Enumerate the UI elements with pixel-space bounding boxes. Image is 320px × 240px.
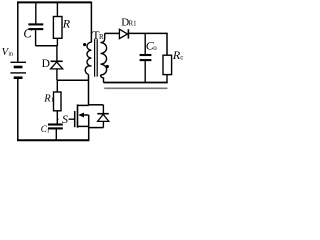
resistor Ro <box>163 55 172 82</box>
label R <box>62 16 71 30</box>
label D <box>42 58 50 70</box>
label R1 <box>43 93 54 104</box>
transformer TR core <box>95 39 98 76</box>
label Vin <box>2 47 13 58</box>
wire output top rail <box>128 32 167 34</box>
diode DR1 <box>119 29 128 38</box>
resistor R1 <box>54 80 62 111</box>
label C1 <box>41 124 50 134</box>
wire source to bottom rail <box>88 126 90 140</box>
wire R1 to C1 <box>56 111 58 124</box>
transformer TR secondary polarity dot <box>106 65 109 68</box>
transformer TR secondary top hook <box>101 33 105 42</box>
wire top rail <box>17 1 91 3</box>
label Ro <box>172 48 184 62</box>
body diode of S <box>89 105 109 128</box>
wire output bottom rail <box>104 82 168 84</box>
svg-text:1: 1 <box>51 98 54 104</box>
wire left rail upper <box>17 2 19 62</box>
svg-text:o: o <box>153 44 157 52</box>
svg-text:D: D <box>42 58 50 70</box>
wire snubber bottom node <box>57 79 89 81</box>
svg-text:C: C <box>23 27 32 41</box>
capacitor C1 <box>48 125 63 141</box>
wire output right drop <box>166 33 168 55</box>
wire R to diode D <box>56 46 58 62</box>
svg-text:in: in <box>8 52 13 58</box>
label TR <box>92 28 104 42</box>
label S <box>58 112 68 126</box>
svg-text:R: R <box>62 16 71 30</box>
wire C-R bottom junction <box>36 45 58 47</box>
wire output bottom rail shadow <box>104 87 167 89</box>
resistor R <box>53 2 62 46</box>
wire gate lead <box>57 118 74 120</box>
label DR1 <box>121 16 136 28</box>
transformer TR primary winding <box>85 42 91 74</box>
capacitor C <box>28 3 43 46</box>
wire bottom rail <box>17 139 89 141</box>
svg-text:S: S <box>62 112 68 126</box>
transformer TR secondary winding <box>101 43 107 75</box>
wire secondary to DR1 <box>105 32 120 34</box>
transformer TR secondary bottom hook <box>101 75 104 83</box>
battery Vin <box>10 62 26 77</box>
svg-text:o: o <box>180 54 183 62</box>
transistor S (MOSFET) <box>75 104 89 127</box>
label C <box>23 27 32 41</box>
label Co <box>146 38 157 52</box>
transformer TR primary polarity dot <box>83 43 86 46</box>
transformer TR primary lead <box>90 2 92 43</box>
wire drain column <box>88 75 90 106</box>
svg-text:1: 1 <box>47 128 50 134</box>
svg-text:R1: R1 <box>129 21 137 28</box>
capacitor Co <box>140 33 152 82</box>
wire left rail lower <box>17 79 19 140</box>
diode D <box>51 61 63 80</box>
svg-text:R: R <box>99 33 104 41</box>
